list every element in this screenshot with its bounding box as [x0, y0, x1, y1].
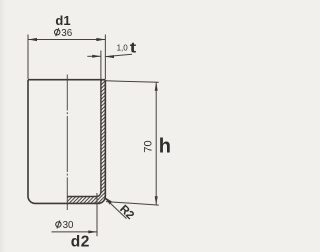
- d2 dimension line: [52, 231, 98, 233]
- svg-text:70: 70: [142, 140, 154, 152]
- value Phi36: [55, 28, 60, 36]
- svg-text:d2: d2: [71, 234, 90, 251]
- paper background: [0, 0, 180, 252]
- h dimension line: [155, 82, 157, 205]
- hatching (section): [60, 30, 120, 252]
- t right (points left): [105, 55, 114, 58]
- d1 extension lines: [27, 35, 29, 80]
- d1 right: [96, 38, 105, 41]
- centerline: [66, 75, 68, 211]
- svg-text:1,0: 1,0: [117, 44, 129, 53]
- svg-text:d1: d1: [55, 13, 70, 28]
- svg-text:36: 36: [61, 28, 72, 39]
- d1 left: [28, 38, 37, 41]
- t extension (inner): [100, 51, 102, 80]
- svg-text:t: t: [130, 39, 137, 56]
- R2 arrow (points up-left to corner): [105, 197, 112, 204]
- h extension top: [105, 81, 158, 83]
- arrowheads: [28, 38, 158, 234]
- R2 leader: [105, 198, 126, 218]
- inner wall / inner bottom: [67, 80, 101, 197]
- h up: [155, 82, 158, 91]
- d2 extension: [96, 193, 98, 236]
- t left (points right): [92, 55, 101, 58]
- d1 dimension line: [28, 39, 105, 41]
- svg-text:h: h: [159, 136, 171, 158]
- h down: [155, 196, 158, 205]
- rim line: [28, 79, 105, 81]
- t dimension line segments: [87, 55, 101, 57]
- value Phi30: [56, 220, 61, 228]
- h extension bottom: [106, 202, 159, 206]
- svg-text:30: 30: [63, 220, 74, 231]
- cup outer outline: [28, 80, 105, 204]
- d2 right: [88, 230, 97, 233]
